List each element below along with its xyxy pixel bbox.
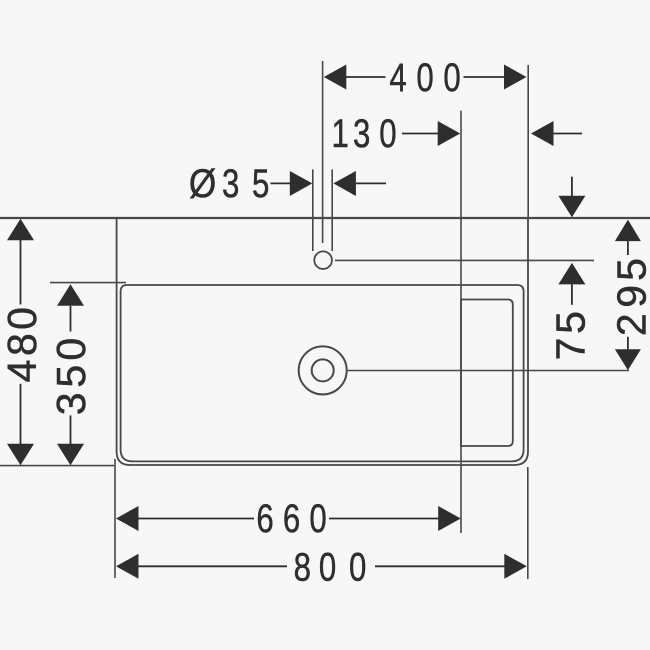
svg-text:0: 0 — [48, 338, 94, 361]
dimension 75 tail below arrow — [571, 284, 573, 304]
dimension 800 arrow right — [504, 554, 527, 579]
dimension 295 arrow up — [615, 220, 641, 242]
svg-text:3: 3 — [48, 392, 94, 415]
svg-text:6: 6 — [256, 496, 273, 541]
extension line faucet hole right — [335, 259, 594, 261]
dimension dia35 arrow right — [333, 171, 356, 196]
svg-text:0: 0 — [309, 496, 326, 541]
dimension 130 outside arrow right — [531, 121, 554, 146]
svg-text:0: 0 — [319, 545, 336, 590]
label 800 — [294, 545, 367, 590]
dimension dia35 arrow left — [290, 171, 313, 196]
label 295 — [609, 258, 650, 336]
svg-text:3: 3 — [222, 161, 239, 206]
dimension 350 arrow down — [57, 444, 84, 466]
svg-text:5: 5 — [548, 311, 594, 334]
svg-text:8: 8 — [0, 333, 45, 356]
extension line sink right bottom — [527, 467, 529, 579]
drain inner circle — [312, 359, 334, 381]
drain outer circle — [299, 346, 347, 394]
svg-text:6: 6 — [283, 496, 300, 541]
svg-text:0: 0 — [416, 55, 433, 100]
shelf inner edge — [461, 300, 513, 447]
dimension 350 line top — [70, 306, 72, 332]
dimension 350 arrow up — [57, 284, 84, 306]
countertop wall line — [0, 217, 650, 219]
dimension 75 arrow up to hole line — [558, 263, 585, 285]
svg-text:0: 0 — [349, 545, 366, 590]
svg-text:5: 5 — [48, 365, 94, 388]
faucet hole circle — [314, 251, 332, 269]
label dia 35 — [189, 161, 269, 206]
svg-text:1: 1 — [332, 111, 349, 156]
label 350 — [48, 338, 94, 415]
dimension dia35 tail right — [356, 182, 386, 184]
dimension 130 outside tail — [554, 133, 583, 135]
sink outer edge — [117, 218, 528, 465]
svg-text:8: 8 — [294, 545, 311, 590]
svg-text:0: 0 — [0, 307, 45, 330]
extension line basin right mid — [460, 111, 462, 533]
dimension 295 tail top — [627, 241, 629, 255]
label 660 — [256, 496, 326, 541]
extension line drain right — [348, 370, 629, 372]
dimension 480 arrow down — [7, 444, 34, 466]
dimension 800 arrow left — [116, 554, 139, 579]
extension line basin top left — [50, 282, 126, 284]
dimension 295 arrow down — [615, 349, 641, 370]
dimension 75 arrow down to wall — [558, 196, 585, 218]
svg-text:4: 4 — [389, 55, 406, 100]
dimension 660 line left — [139, 518, 255, 520]
dimension dia35 line left — [271, 182, 293, 184]
svg-text:5: 5 — [252, 161, 269, 206]
label 480 — [0, 307, 45, 382]
dimension 75 tail top — [571, 177, 573, 196]
svg-text:Ø: Ø — [189, 161, 216, 206]
dimension 480 line top — [20, 240, 22, 305]
svg-text:5: 5 — [609, 258, 650, 281]
dimension 480 arrow up — [7, 219, 34, 241]
dimension 800 line left — [139, 565, 288, 567]
basin inner edge — [121, 285, 524, 461]
extension line sink left bottom — [114, 459, 116, 578]
extension line sink right top — [527, 65, 529, 218]
dimension 350 line bottom — [70, 415, 72, 444]
svg-text:7: 7 — [548, 338, 594, 361]
svg-text:0: 0 — [379, 111, 396, 156]
dimension 400 line right — [464, 76, 511, 78]
dimension 295 tail bottom — [627, 337, 629, 350]
svg-text:2: 2 — [609, 313, 650, 336]
extension line sink bottom left — [0, 465, 114, 467]
dimension 130 line — [402, 133, 439, 135]
svg-text:3: 3 — [353, 111, 370, 156]
extension line hole right tangent — [331, 169, 333, 251]
dimension 400 arrow left — [324, 65, 347, 90]
dimension 800 line right — [375, 565, 505, 567]
dimension 480 line bottom — [20, 384, 22, 444]
extension line faucet centerline — [322, 61, 324, 243]
dimension 130 arrow — [438, 121, 461, 146]
label 400 — [389, 55, 460, 100]
dimension 660 arrow left — [116, 506, 139, 531]
svg-text:9: 9 — [609, 285, 650, 308]
label 130 — [332, 111, 397, 156]
dimension 660 arrow right — [438, 506, 461, 531]
svg-text:4: 4 — [0, 360, 45, 383]
dimension 400 line left — [340, 76, 386, 78]
svg-text:0: 0 — [443, 55, 460, 100]
dimension 660 line right — [329, 518, 439, 520]
extension line hole left tangent — [312, 169, 314, 251]
dimension 400 arrow right — [504, 65, 527, 90]
label 75 — [548, 311, 594, 360]
